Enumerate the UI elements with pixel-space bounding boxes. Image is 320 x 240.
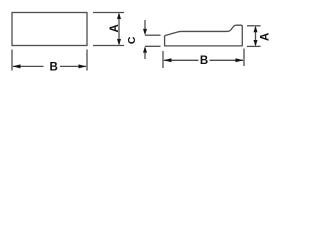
dimension B (left) left arrowhead (13, 64, 21, 68)
right figure profile outline (165, 25, 243, 46)
dimension C lower arrowhead (143, 46, 147, 52)
dimension A (left) bottom extension line (93, 45, 124, 47)
dimension B (left) left extension line (11, 50, 13, 71)
dimension B (right) right extension line (243, 49, 245, 67)
dimension A (right) top arrowhead (254, 26, 258, 32)
dimension A (left) bottom arrowhead (117, 39, 121, 46)
dimension A (left) dimension line (118, 14, 120, 44)
dimension B (left) dimension line left segment (13, 65, 44, 67)
dimension B (right) dimension line left segment (164, 59, 199, 61)
dimension A (right) bottom extension line (247, 45, 261, 47)
svg-text:A: A (109, 24, 121, 32)
svg-text:B: B (49, 61, 57, 73)
dimension B (right) dimension line right segment (210, 59, 244, 61)
dimension B (left) right arrowhead (79, 64, 87, 68)
dimension A (right) top extension line (247, 25, 261, 27)
dimension B (right) left extension line (162, 51, 164, 68)
dimension A (left) top arrowhead (117, 13, 121, 20)
dimension A (right) dimension line (255, 27, 257, 45)
svg-text:A: A (260, 33, 272, 41)
dimension B (right) left arrowhead (164, 58, 172, 62)
dimension C upper arrow tail (144, 20, 146, 30)
dimension A (left) top extension line (93, 12, 124, 14)
dimension B (left) right extension line (86, 50, 88, 71)
dimension C top extension line (145, 34, 161, 36)
left figure rectangle outline (12, 13, 87, 46)
svg-text:C: C (126, 36, 138, 44)
dimension B (right) right arrowhead (236, 58, 244, 62)
dimension C upper arrowhead (143, 29, 147, 35)
dimension C bottom extension line (145, 45, 161, 47)
dimension C lower arrow tail (144, 52, 146, 60)
svg-text:B: B (200, 55, 208, 67)
dimension B (left) dimension line right segment (60, 65, 86, 67)
dimension A (right) bottom arrowhead (254, 40, 258, 46)
